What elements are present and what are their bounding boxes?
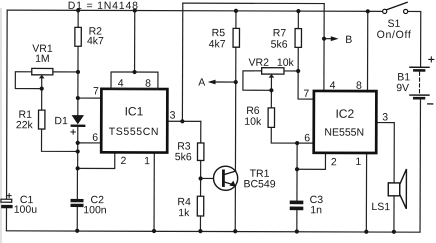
- node: rail/R5: [234, 9, 238, 13]
- wire: IC1 pin1 to ground: [153, 153, 155, 231]
- node: IC1 pin2: [76, 166, 80, 170]
- svg-text:D1: D1: [54, 115, 68, 127]
- wire: wiper node to R1: [41, 89, 43, 110]
- svg-text:9V: 9V: [396, 82, 409, 94]
- svg-text:1k: 1k: [178, 207, 190, 219]
- node: IC1 pin7: [76, 96, 80, 100]
- svg-text:TS555CN: TS555CN: [109, 126, 159, 138]
- svg-text:10k: 10k: [244, 116, 262, 128]
- svg-text:7: 7: [303, 88, 309, 100]
- wire: switch to battery: [408, 11, 421, 67]
- svg-text:LS1: LS1: [371, 201, 390, 213]
- wire: R5 bottom to node A: [235, 47, 237, 82]
- node: gnd R4: [198, 229, 202, 233]
- node: TR1 base: [199, 176, 203, 180]
- wire: node down to C2: [76, 168, 78, 199]
- resistor R1: [38, 110, 44, 129]
- wire: upper link rail IC1 pin3 to IC2 pin4: [183, 2, 324, 4]
- svg-text:3: 3: [170, 109, 176, 121]
- svg-text:4: 4: [118, 77, 124, 89]
- potentiometer VR2: [262, 68, 284, 78]
- potentiometer VR1: [32, 68, 53, 78]
- node: gnd IC1 pin1: [152, 229, 156, 233]
- svg-text:6: 6: [304, 132, 310, 144]
- svg-text:NE555N: NE555N: [324, 127, 364, 139]
- svg-text:4k7: 4k7: [87, 35, 104, 47]
- svg-text:1: 1: [355, 156, 361, 168]
- node: gnd C2: [75, 229, 79, 233]
- svg-text:8: 8: [356, 80, 362, 92]
- node: rail/IC1 bracket: [133, 8, 137, 12]
- resistor R3: [197, 143, 203, 161]
- node: A: [234, 80, 238, 84]
- wire: IC2 pin3 lead to LS1: [376, 123, 394, 183]
- wire: VR1 wiper stem: [41, 78, 43, 89]
- wire: VR1 left terminal loop: [15, 72, 41, 89]
- wire: wiper node to R6: [270, 90, 272, 108]
- svg-text:5k6: 5k6: [271, 39, 288, 51]
- wire: IC2 pin7 elbow: [298, 71, 314, 99]
- svg-text:D1 = 1N4148: D1 = 1N4148: [68, 0, 139, 12]
- svg-text:4k7: 4k7: [209, 38, 226, 50]
- wire: pin2 node down to C3: [296, 169, 298, 200]
- node: gnd LS1: [392, 230, 396, 234]
- wire: R2 bottom to VR1 node: [77, 46, 79, 98]
- IC1 box: [101, 89, 167, 153]
- wire: LS1 bottom to ground: [393, 196, 395, 232]
- capacitor C1 (electrolytic): [1, 194, 13, 209]
- wire: IC2 pin1 to ground: [365, 153, 367, 231]
- wire: VR2 left terminal loop: [243, 71, 272, 90]
- svg-text:3: 3: [382, 111, 388, 123]
- svg-text:100u: 100u: [14, 204, 38, 216]
- svg-text:100n: 100n: [83, 204, 107, 216]
- node: gnd TR1 emitter: [233, 229, 237, 233]
- scan edge artifact left: [0, 8, 2, 243]
- svg-text:VR2: VR2: [248, 57, 269, 69]
- wire: R3 bottom to base node: [200, 160, 202, 196]
- svg-text:22k: 22k: [16, 119, 34, 131]
- battery B1: [410, 57, 434, 104]
- node: IC1 pin6: [76, 141, 80, 145]
- wire: R1 bottom elbow to D1 line: [41, 129, 77, 151]
- wire: IC2 pin4 riser from upper link rail: [323, 4, 325, 91]
- IC1 supply bracket pins 4/8: [111, 72, 158, 89]
- wire: VR2 wiper stem: [270, 77, 272, 91]
- wire: IC2 pin2 elbow: [297, 153, 325, 169]
- svg-text:10k: 10k: [277, 57, 295, 69]
- wire: node A riser to upper link rail: [181, 3, 183, 121]
- svg-text:IC2: IC2: [335, 107, 354, 121]
- resistor R4: [197, 196, 203, 216]
- svg-text:2: 2: [121, 155, 127, 167]
- wire: R7 bottom to VR2 node: [297, 47, 299, 71]
- capacitor C3: [290, 201, 304, 211]
- wire: IC1 pin6 lead: [78, 142, 101, 144]
- wire: IC1 supply bracket stem: [134, 11, 136, 72]
- wire: R5 top feed: [235, 11, 237, 28]
- resistor R6: [268, 108, 274, 128]
- wire: IC1 pin3 output lead: [167, 120, 200, 122]
- node: IC2 pin6: [295, 141, 299, 145]
- wire: C2 bottom to ground: [76, 207, 78, 231]
- svg-text:7: 7: [93, 85, 99, 97]
- node B arrow: [324, 36, 339, 41]
- svg-text:5k6: 5k6: [175, 151, 192, 163]
- node: gnd IC2 pin1: [364, 230, 368, 234]
- node: VR2 right: [296, 69, 300, 73]
- node: IC2 pin2: [295, 167, 299, 171]
- node: B: [322, 37, 326, 41]
- svg-text:R5: R5: [212, 27, 226, 39]
- wire: R4 bottom to ground: [199, 216, 201, 231]
- node: VR1 wiper: [40, 87, 44, 91]
- wire: R7 top feed: [297, 11, 299, 28]
- resistor R2: [75, 27, 81, 46]
- wire: R6 bottom elbow to pin6: [271, 127, 314, 143]
- svg-text:A: A: [198, 77, 205, 89]
- node: gnd C3: [295, 229, 299, 233]
- svg-text:B: B: [345, 34, 352, 46]
- resistor R7: [295, 29, 301, 48]
- node: VR2 wiper: [269, 88, 273, 92]
- switch S1: [383, 2, 408, 13]
- wire: node to D1 anode: [77, 98, 79, 115]
- capacitor C2: [71, 199, 84, 207]
- node: rail/IC2 pin8: [366, 9, 370, 13]
- wire: +9V top rail: [7, 10, 382, 11]
- svg-text:1n: 1n: [310, 204, 322, 216]
- node: VR1 right: [76, 70, 80, 74]
- svg-text:4: 4: [330, 80, 336, 92]
- wire: C3 bottom to ground: [296, 210, 298, 231]
- svg-text:BC549: BC549: [243, 178, 275, 190]
- node: R1 junction: [76, 149, 80, 153]
- svg-text:2: 2: [331, 156, 337, 168]
- wire: pin6 node down to pin2 node: [296, 143, 298, 169]
- node: bracket stem: [132, 70, 136, 74]
- diode D1: [71, 115, 86, 134]
- wire: R3 top feed: [200, 121, 202, 143]
- wire: ground bottom rail: [6, 231, 420, 232]
- node: rail/R7: [296, 9, 300, 13]
- loudspeaker LS1: [388, 169, 406, 209]
- node A arrow: [208, 80, 236, 85]
- svg-text:1M: 1M: [35, 53, 50, 65]
- transistor TR1: [213, 166, 237, 190]
- wire: VR2 right terminal: [284, 70, 298, 72]
- wire: R2 top feed: [77, 10, 79, 27]
- wire: base node to TR1 base: [201, 177, 223, 179]
- wire: TR1 emitter to ground: [234, 185, 236, 231]
- IC2 box: [314, 91, 377, 153]
- wire: D1 cathode down to pin6 node: [77, 127, 79, 168]
- wire: IC2 pin8 feed: [366, 11, 368, 91]
- wire: VR1 right terminal: [53, 71, 78, 73]
- svg-text:8: 8: [145, 78, 151, 90]
- wire: IC1 pin2 elbow: [78, 152, 115, 168]
- wire: left rail upper (top rail to C1): [6, 10, 9, 199]
- wire: node A down to TR1 collector: [234, 82, 236, 171]
- node: IC1 pin3 riser: [180, 119, 184, 123]
- svg-text:6: 6: [92, 132, 98, 144]
- svg-text:On/Off: On/Off: [377, 29, 412, 41]
- wire: C1 bottom to ground: [5, 208, 7, 230]
- wire: battery minus to ground: [419, 99, 421, 231]
- resistor R5: [233, 28, 239, 47]
- svg-text:R7: R7: [273, 27, 287, 39]
- svg-text:1: 1: [144, 155, 150, 167]
- node: rail/R2: [76, 8, 80, 12]
- wire: IC1 pin7 lead: [78, 97, 101, 99]
- svg-text:IC1: IC1: [125, 104, 144, 118]
